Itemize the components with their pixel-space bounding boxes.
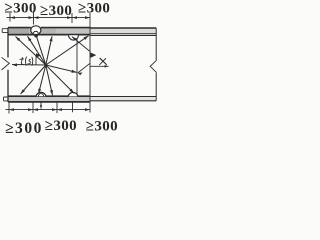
svg-text:≥300: ≥300: [78, 1, 110, 17]
svg-text:≥300: ≥300: [5, 120, 43, 137]
svg-text:≥300: ≥300: [45, 118, 77, 134]
svg-text:≥300: ≥300: [5, 1, 37, 17]
svg-text:≥300: ≥300: [40, 3, 72, 19]
svg-text:≥300: ≥300: [86, 119, 118, 135]
